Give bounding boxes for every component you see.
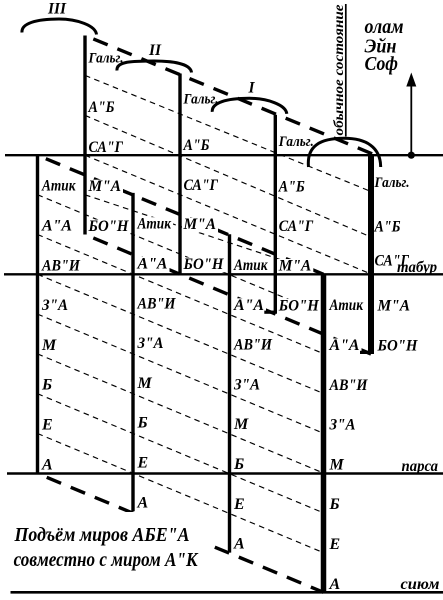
svg-text:М: М <box>137 375 153 392</box>
svg-text:А: А <box>41 456 53 473</box>
thin dashed diagonal from A"K level boundary M"A <box>85 155 371 274</box>
svg-text:Атик: Атик <box>233 257 268 274</box>
svg-text:Соф: Соф <box>365 53 399 75</box>
svg-text:А"А: А"А <box>329 337 360 354</box>
white backdrop for E (ABEA state III) <box>41 418 57 433</box>
vertical line: world A"K state II <box>178 74 181 276</box>
svg-text:АВ"И: АВ"И <box>137 295 176 312</box>
svg-text:Е: Е <box>137 455 149 472</box>
svg-text:Е: Е <box>329 536 341 553</box>
arc over state II column <box>117 61 192 73</box>
white backdrop for Z"A (ABEA state II) <box>136 337 166 352</box>
white backdrop for M (ABEA state II) <box>136 376 152 391</box>
thin dashed diagonal from ABEA level boundary M <box>38 354 324 473</box>
white backdrop for A&quot;B (state III) <box>87 101 117 116</box>
bold dashed line: bottoms of ABEA lines (parsa to siyum) <box>38 474 324 593</box>
thin dashed diagonal from ABEA level boundary Z"A <box>38 314 324 433</box>
white backdrop for B (ABEA state II) <box>136 416 152 431</box>
svg-text:А"Б: А"Б <box>374 219 401 236</box>
white backdrop for AV"I (ABEA state normal) <box>328 378 370 393</box>
arc over state III column <box>22 19 97 35</box>
svg-text:Гальг.: Гальг. <box>183 92 219 108</box>
white backdrop for B (ABEA state normal) <box>328 498 344 513</box>
svg-text:Гальг.: Гальг. <box>278 134 314 150</box>
svg-text:Б: Б <box>329 496 340 513</box>
white backdrop for caption <box>10 512 211 574</box>
white backdrop for E (ABEA state I) <box>233 497 249 512</box>
svg-text:парса: парса <box>402 458 439 475</box>
svg-text:I: I <box>247 80 255 97</box>
svg-text:М: М <box>329 456 345 473</box>
svg-text:БО"Н: БО"Н <box>183 256 224 273</box>
svg-text:М"А: М"А <box>88 178 122 195</box>
svg-text:З"А: З"А <box>137 335 164 352</box>
white backdrop for Atik (ABEA state normal) <box>328 299 365 314</box>
svg-text:АВ"И: АВ"И <box>329 377 368 394</box>
svg-text:М: М <box>41 337 57 354</box>
vertical line: worlds ABEA state III <box>36 155 39 473</box>
horizontal line: tabur <box>4 273 443 275</box>
svg-text:А"Б: А"Б <box>278 178 305 195</box>
white backdrop for A"A (ABEA state normal) <box>328 339 362 354</box>
thin dashed diagonal from A"K level boundary A"B <box>85 75 371 191</box>
svg-text:М: М <box>233 416 249 433</box>
leader line from 'usual state' text to arc apex <box>345 4 347 137</box>
svg-text:А"А: А"А <box>137 256 168 273</box>
white backdrop for BO&quot;N (state III) <box>87 220 131 235</box>
white backdrop for Z"A (ABEA state normal) <box>328 418 358 433</box>
bold dashed line: tops of ABEA lines <box>38 155 324 274</box>
svg-text:II: II <box>148 42 162 59</box>
white backdrop for A"A (ABEA state I) <box>233 298 267 313</box>
svg-text:А: А <box>233 536 245 553</box>
horizontal line: upper boundary (olam Ein Sof line) <box>5 154 443 156</box>
white backdrop for AV"I (ABEA state I) <box>233 338 275 353</box>
vertical line: worlds ABEA state II <box>131 193 134 511</box>
white backdrop for A (ABEA state III) <box>41 458 57 473</box>
svg-text:А"Б: А"Б <box>88 99 115 116</box>
bold dashed line: bottoms of A"K lines <box>85 235 371 355</box>
white backdrop for Atik (ABEA state I) <box>233 259 270 274</box>
vertical line: world A"K state I <box>274 115 277 314</box>
svg-text:АВ"И: АВ"И <box>233 337 272 354</box>
svg-text:Б: Б <box>233 456 244 473</box>
white backdrop for M&quot;A (state normal) <box>376 299 412 314</box>
svg-text:А"А: А"А <box>233 297 264 314</box>
svg-text:Гальг.: Гальг. <box>374 175 410 191</box>
white backdrop for BO&quot;N (state I) <box>277 299 321 314</box>
vertical line: world A"K state III <box>83 36 86 235</box>
white backdrop for B (ABEA state III) <box>41 378 57 393</box>
thin dashed diagonal from ABEA level boundary Atik <box>38 195 324 314</box>
white backdrop for A (ABEA state I) <box>233 537 249 552</box>
svg-text:А"Б: А"Б <box>183 137 210 154</box>
white backdrop for AV"I (ABEA state II) <box>136 297 178 312</box>
svg-text:Б: Б <box>41 377 52 394</box>
arc over normal state column (A"K) <box>308 138 380 167</box>
svg-text:Е: Е <box>41 417 53 434</box>
svg-text:БО"Н: БО"Н <box>88 218 129 235</box>
svg-text:сиюм: сиюм <box>401 576 440 593</box>
svg-text:III: III <box>47 1 67 18</box>
white backdrop for A&quot;B (state II) <box>182 139 212 154</box>
svg-text:Атик: Атик <box>41 178 76 195</box>
white backdrop for Atik (ABEA state II) <box>136 217 173 232</box>
bold dashed line: tops of A"K lines (raising path) <box>85 36 378 157</box>
dot node on upper line <box>408 152 415 159</box>
thin dashed diagonal from A"K level boundary SA"G <box>85 115 371 237</box>
white backdrop for M&quot;A (state I) <box>277 259 313 274</box>
svg-text:БО"Н: БО"Н <box>278 297 319 314</box>
svg-text:М"А: М"А <box>278 258 312 275</box>
svg-text:обычное состояние: обычное состояние <box>331 4 346 135</box>
thin dashed diagonal from ABEA level boundary AV"I <box>38 274 324 393</box>
svg-text:М"А: М"А <box>377 298 411 315</box>
svg-text:Е: Е <box>233 496 245 513</box>
white backdrop for SA&quot;G (state I) <box>277 220 315 235</box>
white backdrop for Atik (ABEA state III) <box>41 179 78 194</box>
svg-text:СА"Г: СА"Г <box>279 218 314 235</box>
horizontal line: siyum <box>11 591 443 594</box>
thin dashed diagonal from ABEA level boundary B <box>38 394 324 513</box>
svg-text:Атик: Атик <box>329 297 364 314</box>
white backdrop for Z"A (ABEA state I) <box>233 378 263 393</box>
horizontal line: parsa <box>7 472 443 475</box>
white backdrop for M&quot;A (state III) <box>87 180 123 195</box>
arc over state I column <box>212 98 287 114</box>
svg-text:Гальг.: Гальг. <box>88 51 124 67</box>
white backdrop for SA&quot;G (state III) <box>87 140 125 155</box>
white backdrop for BO&quot;N (state normal) <box>376 339 420 354</box>
svg-text:З"А: З"А <box>41 297 68 314</box>
vertical line: worlds ABEA state I <box>228 234 231 552</box>
svg-text:З"А: З"А <box>329 417 356 434</box>
white backdrop for Z"A (ABEA state III) <box>41 299 71 314</box>
vertical line: worlds ABEA state normal <box>321 274 327 592</box>
arrow up (to olam Ein Sof) <box>410 84 412 152</box>
thin dashed diagonal from ABEA level boundary A"A <box>38 235 324 354</box>
white backdrop for BO&quot;N (state II) <box>182 258 226 273</box>
svg-text:А: А <box>329 576 341 593</box>
svg-text:БО"Н: БО"Н <box>377 338 418 355</box>
svg-text:СА"Г: СА"Г <box>89 139 124 156</box>
white backdrop for AV"I (ABEA state III) <box>41 259 83 274</box>
foot at bottom of A"K line I <box>264 311 275 314</box>
svg-text:Б: Б <box>137 415 148 432</box>
white backdrop for A"A (ABEA state II) <box>136 257 170 272</box>
svg-text:СА"Г: СА"Г <box>184 177 219 194</box>
svg-text:Атик: Атик <box>137 216 172 233</box>
white backdrop for A"A (ABEA state III) <box>41 219 75 234</box>
thin dashed diagonal from ABEA level boundary E <box>38 434 324 553</box>
thin dashed diagonal from A"K level boundary BO"N <box>85 195 324 274</box>
white backdrop for M (ABEA state III) <box>41 338 57 353</box>
vertical line: world A"K state normal <box>368 155 374 354</box>
white backdrop for E (ABEA state II) <box>136 456 152 471</box>
svg-text:Подъём миров АБЕ"А: Подъём миров АБЕ"А <box>14 524 190 546</box>
svg-text:А: А <box>137 494 149 511</box>
white backdrop for A&quot;B (state I) <box>277 180 307 195</box>
svg-text:совместно с миром А"К: совместно с миром А"К <box>14 549 199 571</box>
white backdrop for A&quot;B (state normal) <box>373 220 403 235</box>
white backdrop for M (ABEA state I) <box>233 418 249 433</box>
white backdrop for SA&quot;G (state normal) <box>373 254 411 269</box>
white backdrop for A (ABEA state normal) <box>328 577 344 592</box>
svg-text:М"А: М"А <box>183 216 217 233</box>
svg-text:табур: табур <box>397 259 437 276</box>
foot at bottom of A"K line normal <box>360 351 371 354</box>
white backdrop for M (ABEA state normal) <box>328 458 344 473</box>
white backdrop for B (ABEA state I) <box>233 458 249 473</box>
svg-text:АВ"И: АВ"И <box>41 257 80 274</box>
white backdrop for A (ABEA state II) <box>136 496 152 511</box>
white backdrop for E (ABEA state normal) <box>328 538 344 553</box>
white backdrop for M&quot;A (state II) <box>182 218 218 233</box>
white backdrop for SA&quot;G (state II) <box>182 178 220 193</box>
svg-text:З"А: З"А <box>233 376 260 393</box>
svg-text:А"А: А"А <box>41 218 72 235</box>
